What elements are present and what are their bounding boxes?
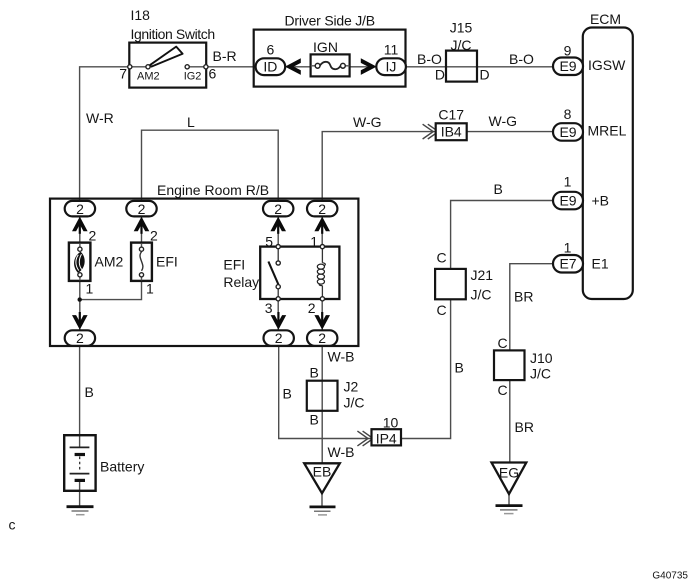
svg-text:IP4: IP4 xyxy=(376,430,397,446)
svg-text:1: 1 xyxy=(564,240,572,256)
svg-text:W-G: W-G xyxy=(353,114,382,130)
svg-text:C: C xyxy=(437,302,447,318)
svg-text:B: B xyxy=(455,360,464,376)
svg-text:9: 9 xyxy=(564,43,572,59)
svg-text:1: 1 xyxy=(564,174,572,190)
svg-text:5: 5 xyxy=(265,234,273,250)
svg-text:Engine Room R/B: Engine Room R/B xyxy=(157,182,269,198)
svg-text:EFI: EFI xyxy=(156,254,178,270)
svg-text:J2: J2 xyxy=(344,379,359,395)
svg-text:IGSW: IGSW xyxy=(588,57,626,73)
svg-text:B: B xyxy=(310,365,319,381)
svg-text:J/C: J/C xyxy=(344,395,365,411)
svg-text:EG: EG xyxy=(499,465,519,481)
svg-text:ID: ID xyxy=(263,59,277,75)
svg-text:+B: +B xyxy=(592,192,610,208)
svg-text:BR: BR xyxy=(515,419,534,435)
svg-text:IGN: IGN xyxy=(313,39,338,55)
svg-text:3: 3 xyxy=(265,300,273,316)
svg-text:2: 2 xyxy=(308,300,316,316)
svg-text:6: 6 xyxy=(209,66,217,82)
svg-text:MREL: MREL xyxy=(588,123,627,139)
svg-text:11: 11 xyxy=(384,42,399,58)
svg-text:E9: E9 xyxy=(559,193,576,209)
svg-text:10: 10 xyxy=(383,415,399,431)
svg-text:1: 1 xyxy=(310,234,318,250)
svg-text:6: 6 xyxy=(267,42,275,58)
svg-text:2: 2 xyxy=(318,201,326,217)
svg-text:D: D xyxy=(435,67,445,83)
svg-text:Driver Side J/B: Driver Side J/B xyxy=(285,13,375,29)
svg-text:W-R: W-R xyxy=(86,110,114,126)
svg-text:C: C xyxy=(498,335,508,351)
svg-text:2: 2 xyxy=(76,201,84,217)
svg-text:2: 2 xyxy=(318,330,326,346)
svg-text:J/C: J/C xyxy=(471,287,492,303)
svg-text:G40735: G40735 xyxy=(652,571,688,582)
svg-text:D: D xyxy=(480,67,490,83)
svg-text:J21: J21 xyxy=(471,267,494,283)
svg-text:J/C: J/C xyxy=(451,37,472,53)
svg-text:I18: I18 xyxy=(131,7,151,23)
svg-text:W-B: W-B xyxy=(328,349,355,365)
svg-text:J/C: J/C xyxy=(530,366,551,382)
svg-text:E9: E9 xyxy=(559,58,576,74)
svg-text:2: 2 xyxy=(138,201,146,217)
svg-text:B-O: B-O xyxy=(509,51,534,67)
svg-text:J10: J10 xyxy=(530,350,553,366)
svg-text:J15: J15 xyxy=(450,20,473,36)
svg-text:8: 8 xyxy=(564,106,572,122)
svg-text:E7: E7 xyxy=(559,256,576,272)
svg-text:2: 2 xyxy=(275,330,283,346)
svg-text:B: B xyxy=(310,412,319,428)
svg-text:2: 2 xyxy=(274,201,282,217)
svg-text:Relay: Relay xyxy=(223,274,259,290)
svg-text:1: 1 xyxy=(146,281,154,297)
svg-text:W-B: W-B xyxy=(328,444,355,460)
svg-text:E1: E1 xyxy=(592,256,609,272)
svg-text:1: 1 xyxy=(86,281,94,297)
svg-text:AM2: AM2 xyxy=(137,70,160,82)
svg-text:Battery: Battery xyxy=(100,459,144,475)
svg-text:C17: C17 xyxy=(438,107,464,123)
svg-text:7: 7 xyxy=(119,66,127,82)
svg-text:B: B xyxy=(283,386,292,402)
svg-text:B: B xyxy=(85,384,94,400)
svg-text:C: C xyxy=(498,382,508,398)
svg-text:ECM: ECM xyxy=(590,11,621,27)
svg-text:B: B xyxy=(494,181,503,197)
svg-text:IG2: IG2 xyxy=(184,70,202,82)
svg-text:B-O: B-O xyxy=(417,51,442,67)
svg-text:C: C xyxy=(437,250,447,266)
svg-text:Ignition Switch: Ignition Switch xyxy=(131,26,215,42)
svg-text:2: 2 xyxy=(76,330,84,346)
svg-text:2: 2 xyxy=(150,228,158,244)
svg-text:AM2: AM2 xyxy=(95,254,124,270)
svg-text:B-R: B-R xyxy=(213,48,237,64)
svg-text:L: L xyxy=(187,114,195,130)
svg-text:IB4: IB4 xyxy=(441,124,462,140)
svg-text:W-G: W-G xyxy=(489,113,518,129)
svg-text:c: c xyxy=(9,517,16,533)
svg-text:E9: E9 xyxy=(559,124,576,140)
svg-text:BR: BR xyxy=(514,289,533,305)
svg-text:EB: EB xyxy=(313,464,332,480)
svg-text:IJ: IJ xyxy=(386,59,397,75)
svg-text:EFI: EFI xyxy=(223,257,245,273)
svg-text:2: 2 xyxy=(89,228,97,244)
